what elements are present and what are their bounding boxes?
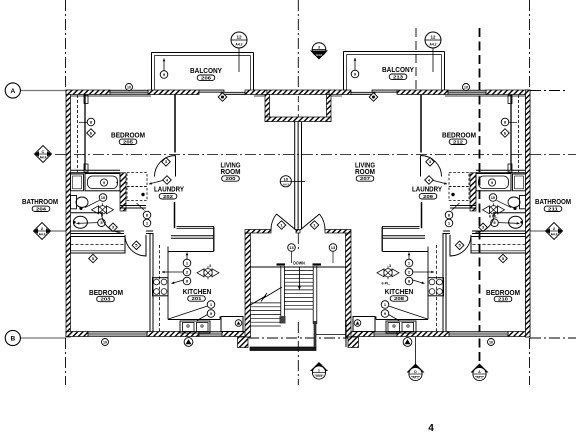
kitchen north wall: [171, 235, 214, 237]
bath exhaust fan: [483, 206, 490, 214]
party wall below alcove: [294, 122, 296, 230]
laundry sill: [120, 205, 146, 207]
svg-text:C: C: [42, 149, 45, 154]
section marker C/A4.4 left: [35, 146, 52, 163]
bedroom 205 door leaf: [420, 156, 422, 177]
svg-text:A4.4: A4.4: [551, 233, 558, 237]
svg-text:BEDROOM: BEDROOM: [442, 130, 476, 139]
svg-text:10: 10: [464, 85, 468, 89]
vertical grid line right: [529, 0, 531, 90]
heavy dashed grid line: [479, 28, 481, 364]
living-bedroom wall upper: [174, 95, 176, 153]
svg-text:LAUNDRY: LAUNDRY: [154, 184, 184, 193]
grid line A horizontal: [21, 90, 67, 92]
top wall hatched segments: [486, 90, 530, 95]
bedroom closet rod (dashed): [77, 95, 79, 172]
bedroom/closet wall: [84, 95, 86, 171]
plumbing wall (hatched) between bath and laundry: [120, 173, 126, 211]
bedroom 205 door swing: [155, 156, 176, 177]
bedroom-bathroom wall: [71, 169, 121, 171]
balcony 206 tag circled 9: [163, 59, 165, 71]
svg-text:9: 9: [103, 181, 105, 185]
svg-text:KITCHEN: KITCHEN: [385, 287, 414, 296]
bedroom 203 closet: [71, 237, 126, 254]
stair west wall (hatched): [245, 233, 251, 337]
upper cabinets dashed line: [436, 245, 438, 331]
kitchen-bedroom wall: [445, 233, 447, 332]
stair bay west post: [238, 337, 249, 348]
top wall window (bedroom): [448, 90, 486, 94]
stair treads west flight: [251, 302, 281, 304]
svg-text:10: 10: [103, 340, 107, 344]
bath exhaust fan: [92, 206, 99, 214]
kitchen lower counter edge: [167, 296, 169, 320]
linen cabinet: [71, 174, 84, 191]
kitchen north wall: [382, 235, 425, 237]
stair break line: [246, 296, 266, 308]
svg-text:1: 1: [318, 369, 320, 373]
kitchen pantry chase: [382, 226, 420, 228]
grid bubble B: [5, 330, 20, 345]
svg-text:10: 10: [491, 195, 496, 200]
bedroom-bathroom wall: [476, 169, 526, 171]
svg-text:4: 4: [428, 423, 434, 432]
laundry sill: [450, 205, 476, 207]
toilet tag circled 10: [99, 194, 107, 202]
toilet: [71, 196, 77, 209]
svg-text:213: 213: [393, 74, 404, 79]
svg-text:208: 208: [394, 296, 405, 301]
balcony 213 tag circled 9: [354, 58, 356, 70]
bottom elevation marker A: [471, 364, 489, 373]
svg-text:A4.2: A4.2: [316, 53, 322, 57]
stair treads center flight: [284, 270, 313, 272]
laundry tags circled 8 and 1: [143, 211, 151, 219]
utility closet: [221, 317, 243, 332]
svg-text:201: 201: [192, 296, 203, 301]
window tag circled 18/A4.3 living room: [291, 180, 305, 182]
top wall sliding balcony door: [372, 90, 397, 92]
vanity counter: [493, 212, 526, 214]
svg-text:3: 3: [209, 264, 211, 268]
kitchen tags 1 2 8: [186, 253, 188, 260]
utility closet: [353, 317, 375, 332]
stair center rail right: [312, 266, 314, 324]
svg-text:A4.2: A4.2: [429, 43, 436, 47]
interior wall face line below top wall: [445, 95, 526, 97]
svg-text:210: 210: [498, 297, 509, 302]
bathroom door tag diamond 3: [109, 223, 118, 232]
hall-bedroom wall: [71, 230, 125, 232]
linen cabinet: [513, 174, 526, 191]
svg-text:DOWN: DOWN: [293, 261, 305, 266]
svg-text:BALCONY: BALCONY: [382, 65, 414, 74]
kitchen ceiling fan: [197, 269, 204, 277]
svg-text:200: 200: [226, 176, 237, 181]
bottom elevation marker 1: [310, 362, 328, 371]
svg-text:LAUNDRY: LAUNDRY: [412, 184, 442, 193]
svg-text:10: 10: [101, 195, 106, 200]
wall tags circled 10 top: [126, 84, 133, 91]
svg-text:A4.4: A4.4: [40, 156, 47, 160]
wall tags diamond below top wall: [218, 93, 227, 102]
elevation marker 12/A4.2 left: [238, 48, 240, 72]
balcony 206 walls: [151, 53, 153, 91]
laundry tags circled 8 and 1: [445, 211, 453, 219]
svg-text:BEDROOM: BEDROOM: [111, 130, 145, 139]
svg-text:BATHROOM: BATHROOM: [535, 197, 571, 206]
stair bay east side line: [345, 320, 347, 347]
bottom wall windows: [88, 332, 147, 337]
bedroom 203 door leaf: [145, 235, 147, 257]
bedroom closet rod (dashed): [518, 95, 520, 172]
kitchen lower counter edge: [427, 296, 429, 320]
toilet tag circled 10: [489, 194, 497, 202]
section marker 2/A4.4 right: [546, 223, 563, 240]
svg-text:A4.2: A4.2: [235, 43, 242, 47]
right exterior wall (hatched): [526, 90, 531, 337]
kitchen-bedroom wall: [149, 233, 151, 332]
stair landing edge: [251, 266, 346, 268]
svg-text:206: 206: [201, 75, 212, 80]
svg-text:204: 204: [36, 206, 47, 211]
svg-text:A4.1: A4.1: [412, 376, 419, 380]
grid line B horizontal: [21, 337, 67, 339]
bottom wall hatched segments: [508, 332, 530, 337]
kitchen sink: [180, 321, 210, 333]
svg-text:12: 12: [236, 35, 242, 40]
bedroom/closet wall: [510, 95, 512, 171]
stair east wall (hatched): [346, 233, 352, 337]
svg-text:ROOM: ROOM: [355, 167, 375, 176]
laundry leader: [452, 203, 460, 211]
kitchen upper counter edge: [383, 251, 429, 253]
hall-bedroom wall: [472, 230, 526, 232]
kitchen tags 1 2 8: [408, 253, 410, 260]
stair doors: [277, 214, 297, 231]
bathroom door swing: [476, 213, 495, 233]
svg-text:BALCONY: BALCONY: [190, 66, 222, 75]
kitchen sink tags 1 9: [169, 306, 208, 319]
bedroom 205 door swing: [421, 156, 442, 177]
bedroom 203 closet: [471, 237, 526, 254]
bathroom door swing: [102, 213, 121, 233]
bedroom 203 door tag diamond 5: [455, 241, 464, 250]
bedroom 205 door tag diamond 3: [426, 158, 435, 167]
exterior left wall (hatched): [66, 90, 71, 337]
bathroom door tag diamond 3: [479, 223, 488, 232]
laundry leader: [137, 203, 145, 211]
kitchen upper counter edge: [168, 251, 214, 253]
hall wall lower: [421, 202, 423, 228]
hall wall lower: [174, 202, 176, 228]
laundry appliances (dashed): [449, 173, 469, 187]
sink tag circled 5: [77, 222, 98, 225]
vanity counter: [71, 212, 104, 214]
top wall band across alcove: [267, 90, 329, 95]
entry alcove hatched walls: [265, 95, 270, 122]
svg-text:A: A: [10, 88, 15, 95]
lavatory sink: [509, 216, 523, 228]
stair north wall (hatched): [245, 230, 271, 234]
laundry bifold tag diamond 4 with arrow: [149, 181, 163, 185]
stair bay bottom wall: [250, 347, 316, 351]
wall tags circled 10 bottom: [102, 339, 109, 346]
kitchen sink tags 1 9: [389, 306, 428, 319]
lavatory sink: [73, 216, 87, 228]
svg-text:207: 207: [360, 176, 371, 181]
svg-text:BEDROOM: BEDROOM: [486, 288, 520, 297]
laundry appliances (dashed): [127, 173, 147, 187]
bottom wall windows: [449, 332, 508, 337]
vertical grid line center: [297, 0, 299, 90]
grid line C horizontal mid: [55, 154, 576, 156]
door tags triangle-in-circle bottom: [184, 338, 193, 347]
kitchen sink: [386, 321, 416, 333]
svg-text:12: 12: [430, 35, 436, 40]
svg-text:A4.2: A4.2: [316, 374, 323, 378]
stair bay entry jamb: [314, 321, 317, 347]
bedroom 203 door leaf: [449, 235, 451, 257]
svg-text:212: 212: [453, 139, 464, 144]
svg-text:KITCHEN: KITCHEN: [183, 287, 212, 296]
bathtub: [85, 174, 120, 191]
down arrow: [298, 268, 300, 290]
bottom elevation marker D: [407, 364, 425, 373]
bedroom 203 door swing: [450, 235, 471, 256]
svg-text:6 PL.: 6 PL.: [489, 215, 498, 219]
elevation marker 12/A4.2 right: [432, 48, 434, 72]
kitchen wall stub: [381, 227, 383, 252]
svg-text:3: 3: [318, 45, 320, 49]
upper cabinets dashed line: [159, 245, 161, 331]
stair tags circled 13: [288, 244, 296, 252]
svg-text:202: 202: [163, 194, 174, 199]
toilet: [520, 196, 526, 209]
bedroom 203 door tag diamond 5: [132, 241, 141, 250]
top wall window (bedroom): [110, 90, 148, 94]
svg-text:13: 13: [331, 245, 336, 250]
svg-text:A4.1: A4.1: [476, 376, 483, 380]
svg-text:A4.3: A4.3: [283, 182, 289, 186]
svg-text:B: B: [10, 336, 15, 343]
sink tag circled 5: [499, 222, 520, 225]
top wall hatched segments: [66, 90, 110, 95]
svg-text:10: 10: [489, 340, 493, 344]
svg-text:BEDROOM: BEDROOM: [89, 288, 123, 297]
stair center rail left: [280, 266, 282, 319]
stair door tags diamond 1: [277, 221, 286, 230]
grid bubble A: [5, 83, 20, 98]
laundry bifold tag diamond 4 with arrow: [434, 181, 448, 185]
kitchen ceiling fan: [377, 269, 384, 277]
svg-text:BATHROOM: BATHROOM: [22, 197, 58, 206]
svg-text:6 PL.: 6 PL.: [381, 282, 390, 286]
svg-text:205: 205: [123, 139, 134, 144]
svg-text:3: 3: [389, 264, 391, 268]
svg-text:18: 18: [284, 177, 288, 181]
bedroom 205 door leaf: [175, 156, 177, 177]
svg-text:203: 203: [101, 297, 112, 302]
svg-text:10: 10: [127, 85, 131, 89]
svg-text:211: 211: [548, 206, 559, 211]
exterior left wall (hatched): [526, 90, 531, 337]
svg-text:13: 13: [289, 245, 294, 250]
kitchen wall stub: [213, 227, 215, 252]
stair bay threshold: [316, 334, 346, 336]
bedroom 205 tags: [509, 121, 517, 123]
bedroom 203 door swing: [125, 235, 146, 256]
bathtub: [476, 174, 511, 191]
plumbing wall (hatched) between bath and laundry: [470, 173, 476, 211]
svg-text:A4.4: A4.4: [39, 233, 46, 237]
bottom wall hatched segments: [66, 332, 88, 337]
stair bay east post: [348, 337, 359, 348]
bedroom 205 door tag diamond 3: [162, 158, 171, 167]
vertical grid line left: [65, 0, 67, 90]
range: [428, 278, 444, 296]
vertical reference line D: [415, 28, 417, 90]
svg-text:9: 9: [491, 181, 493, 185]
balcony 213 walls: [343, 52, 345, 91]
svg-text:209: 209: [423, 194, 434, 199]
living-bedroom wall upper: [420, 95, 422, 153]
svg-text:ROOM: ROOM: [221, 167, 241, 176]
interior wall face line below top wall: [71, 95, 152, 97]
section marker 2/A4.4 left: [34, 223, 51, 240]
range: [153, 278, 169, 296]
kitchen pantry chase: [177, 226, 215, 228]
bedroom 205 tags: [79, 121, 87, 123]
top wall sliding balcony door: [199, 90, 224, 92]
section marker 3/A4.2 top center: [312, 43, 326, 57]
